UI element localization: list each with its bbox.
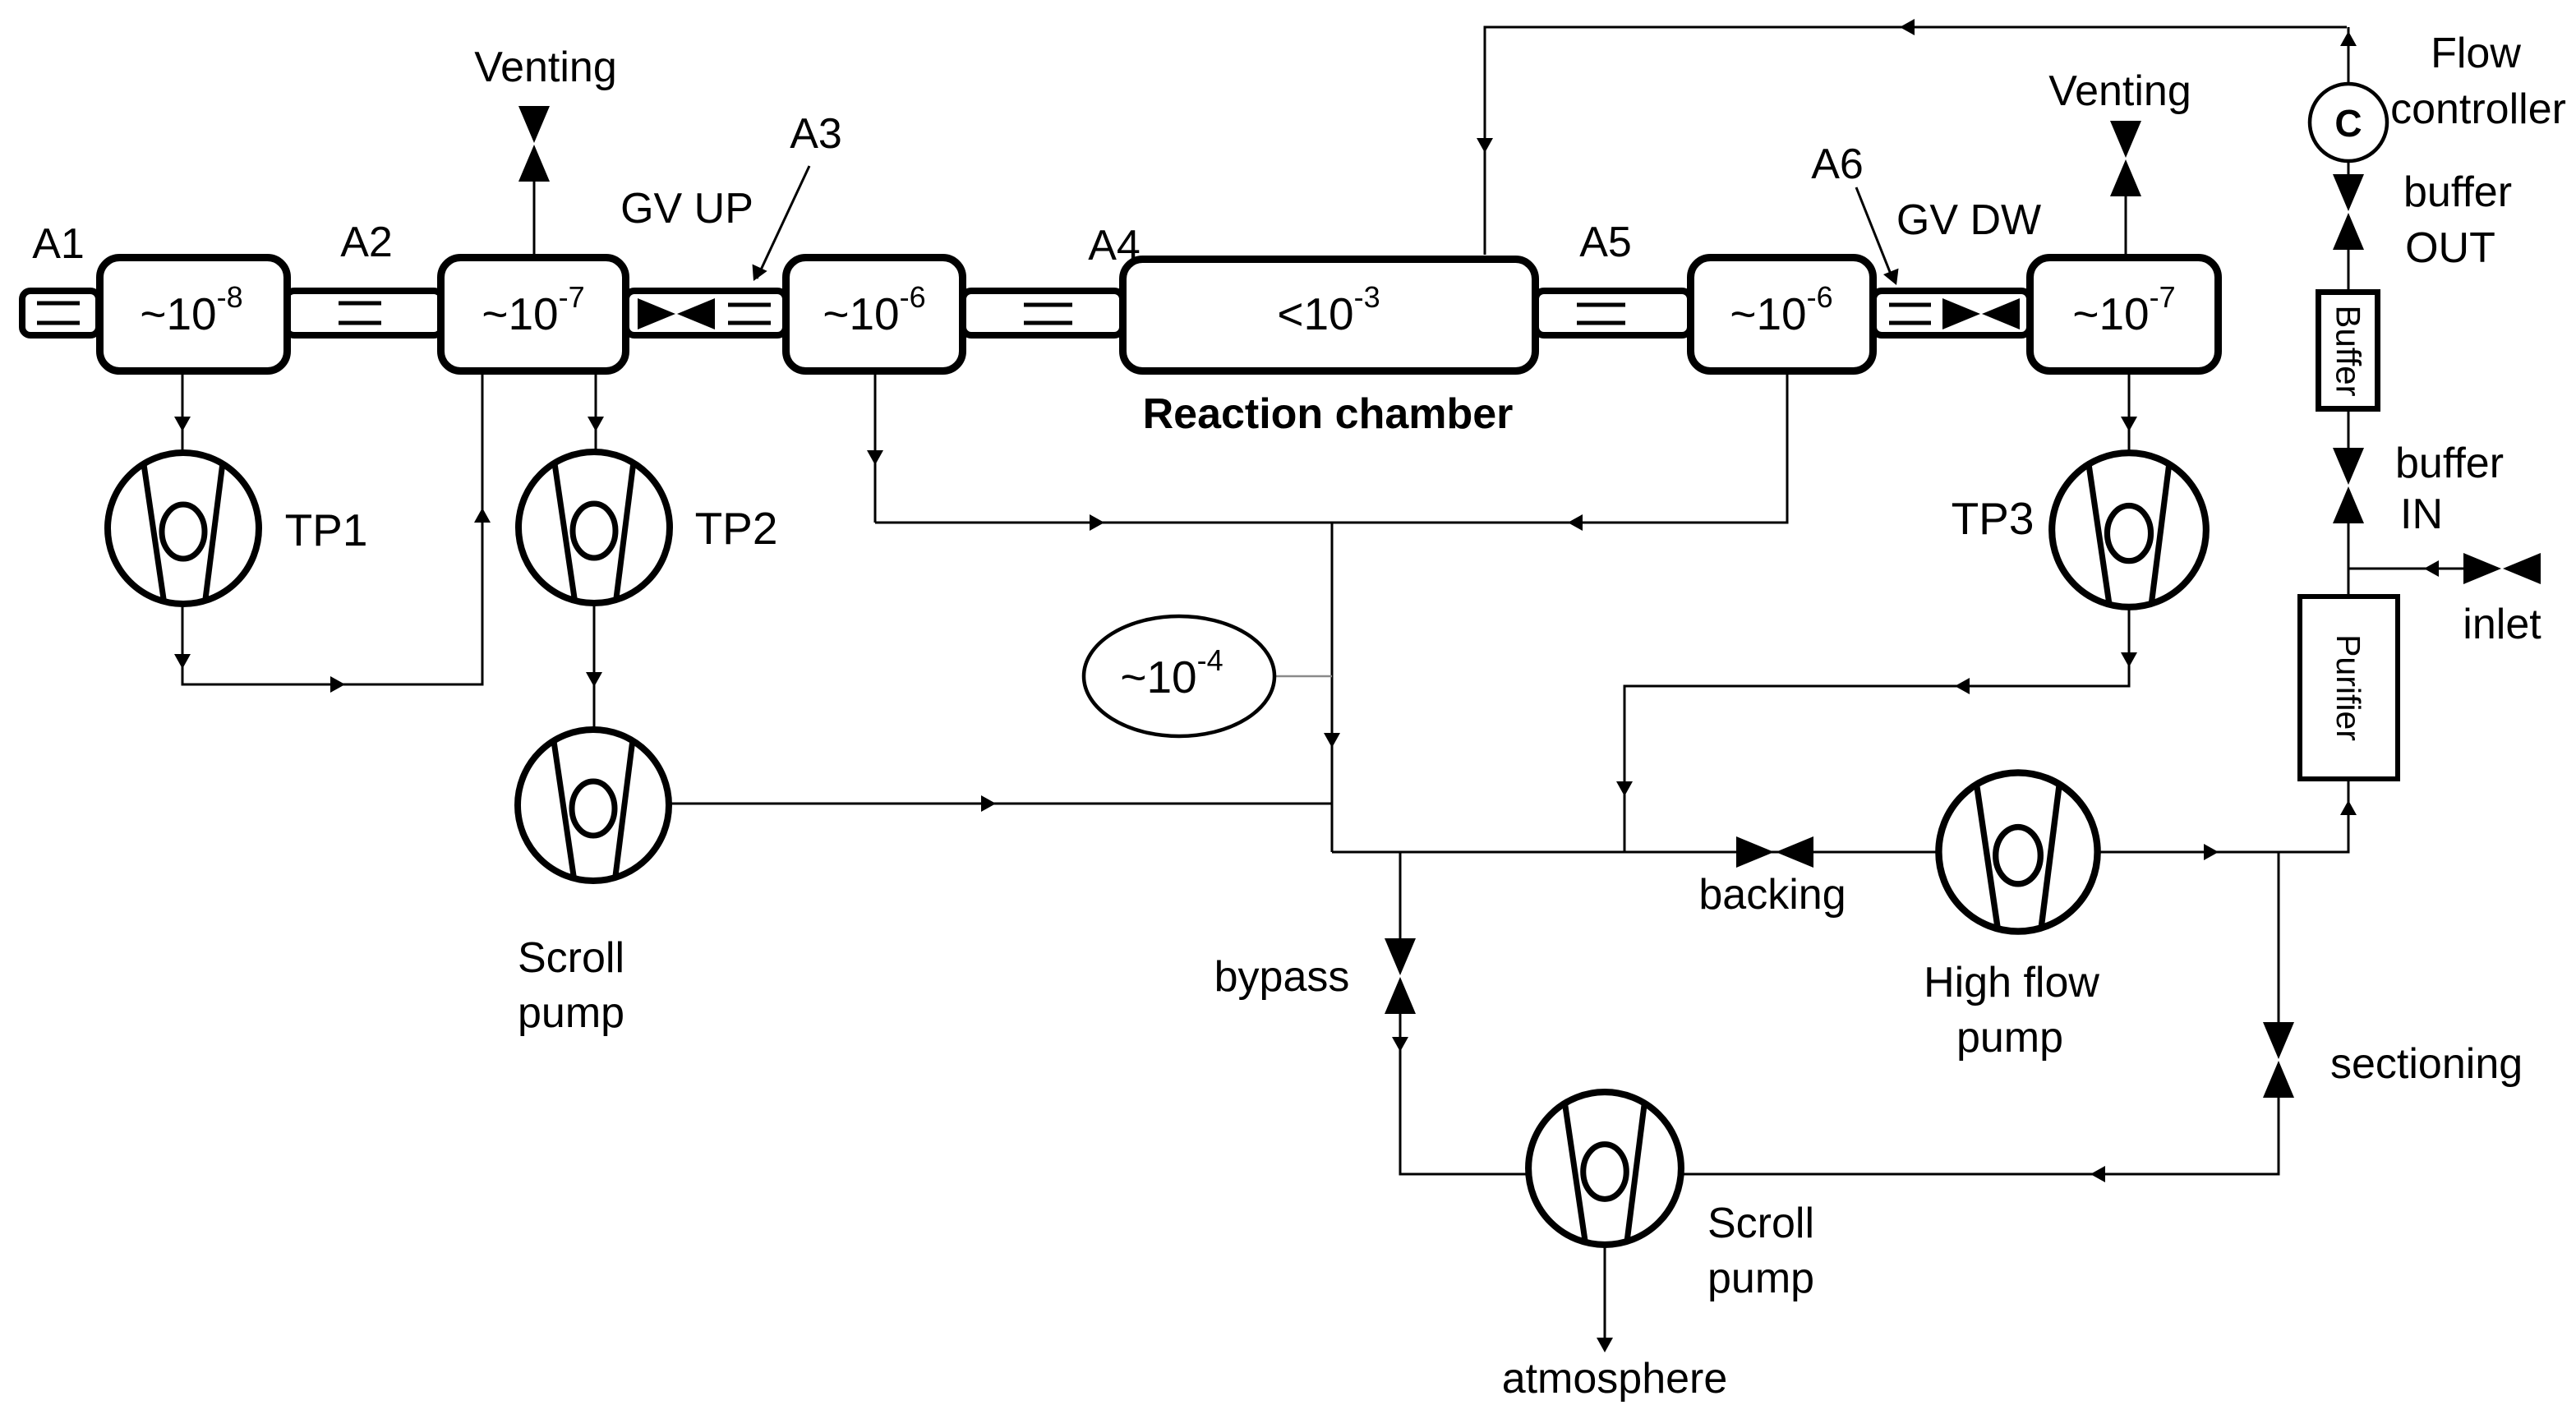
arrow up to feedback line: [2340, 31, 2357, 46]
chamber C 10-6 upstream: [786, 258, 963, 371]
arrow left on crossover: [1568, 514, 1583, 531]
svg-text:GV DW: GV DW: [1896, 196, 2041, 244]
scroll pump downstream: [1528, 1092, 1681, 1245]
svg-text:OUT: OUT: [2405, 224, 2495, 272]
turbo pump TP3: [2052, 453, 2206, 607]
svg-text:Flow: Flow: [2431, 30, 2521, 77]
arrow left into scroll pump: [2090, 1166, 2105, 1182]
arrow down into scroll pump: [586, 672, 602, 687]
svg-text:atmosphere: atmosphere: [1502, 1355, 1728, 1403]
svg-text:controller: controller: [2390, 85, 2566, 133]
feedback line from flow controller to reaction chamber: [1485, 27, 2347, 255]
arrow left on inlet line: [2424, 560, 2439, 577]
svg-text:Reaction chamber: Reaction chamber: [1143, 390, 1514, 438]
tube A5: [1536, 291, 1690, 335]
venting valve downstream stem: [2125, 196, 2127, 254]
svg-text:IN: IN: [2400, 491, 2443, 538]
svg-text:pump: pump: [1956, 1014, 2063, 1062]
tube A4: [963, 291, 1122, 335]
arrow right on crossover: [1090, 514, 1104, 531]
svg-text:buffer: buffer: [2395, 440, 2504, 487]
valve sectioning: [2263, 1022, 2294, 1098]
chamber B 10-7 upstream: [441, 258, 626, 371]
gauge 10-4 connector: [1274, 675, 1332, 678]
wire scroll pump to foreline junction: [669, 803, 1332, 805]
A6 pointer arrowhead: [1883, 269, 1904, 288]
wire TP1 outlet to chamber 10-7: [182, 371, 482, 684]
tube A2: [286, 291, 442, 335]
arrow right on pump outlet: [2204, 844, 2219, 860]
svg-text:Purifier: Purifier: [2329, 634, 2367, 741]
svg-text:buffer: buffer: [2403, 168, 2512, 216]
svg-text:TP1: TP1: [285, 504, 368, 555]
wire chamber 10-6 upstream down to crossover: [874, 373, 877, 523]
chamber A 10-8: [100, 258, 288, 371]
arrow down on TP1 outlet: [174, 654, 191, 669]
wire high flow pump to purifier: [2098, 781, 2348, 852]
arrow left on TP3 outlet run: [1955, 678, 1970, 694]
A3 pointer arrowhead: [746, 264, 767, 284]
reaction chamber: [1123, 260, 1536, 371]
high flow pump: [1938, 772, 2097, 931]
arrow up into chamber 10-7: [474, 508, 491, 523]
svg-text:A6: A6: [1811, 140, 1864, 188]
svg-text:A3: A3: [790, 110, 842, 158]
wire crossover down to backing manifold: [1331, 523, 1334, 852]
A6 pointer line: [1856, 187, 1893, 280]
svg-text:Buffer: Buffer: [2329, 305, 2368, 396]
venting valve upstream: [518, 106, 550, 182]
wire TP2 to scroll pump: [593, 604, 596, 729]
arrow down on TP3 outlet: [2121, 652, 2137, 667]
arrow down into TP2: [588, 417, 604, 431]
wire sectioning branch to scroll pump: [1682, 852, 2279, 1174]
svg-text:A5: A5: [1579, 219, 1632, 266]
svg-text:pump: pump: [518, 989, 624, 1037]
svg-text:Venting: Venting: [2048, 67, 2191, 115]
chamber E 10-7 downstream: [2030, 258, 2219, 371]
svg-text:bypass: bypass: [1214, 953, 1350, 1001]
venting valve upstream stem: [533, 182, 536, 256]
wire inlet to riser: [2348, 568, 2463, 570]
svg-text:High flow: High flow: [1924, 959, 2099, 1007]
venting valve downstream: [2110, 121, 2141, 196]
arrow down below bypass valve: [1392, 1037, 1408, 1052]
arrow left on feedback line: [1900, 19, 1915, 35]
svg-text:Scroll: Scroll: [1707, 1200, 1814, 1247]
svg-text:TP2: TP2: [695, 503, 778, 554]
tube GV DW: [1873, 291, 2030, 335]
svg-text:sectioning: sectioning: [2330, 1040, 2523, 1088]
wire chamber A10-8 to TP1: [182, 373, 184, 451]
svg-text:Scroll: Scroll: [518, 934, 624, 982]
svg-text:inlet: inlet: [2463, 601, 2541, 648]
chamber D 10-6 downstream: [1691, 258, 1873, 371]
valve bypass: [1385, 938, 1416, 1014]
svg-text:GV UP: GV UP: [620, 185, 753, 233]
buffer box: [2319, 293, 2378, 409]
valve buffer OUT: [2333, 174, 2364, 250]
svg-text:backing: backing: [1698, 871, 1846, 919]
arrow down into backing manifold: [1616, 781, 1633, 796]
arrow right on scroll pump line: [981, 795, 996, 812]
svg-text:pump: pump: [1707, 1255, 1814, 1302]
turbo pump TP1: [108, 453, 259, 604]
svg-text:TP3: TP3: [1952, 493, 2035, 544]
wire chamber 10-7 to TP2: [595, 373, 597, 451]
arrow down to atmosphere: [1597, 1338, 1613, 1352]
svg-text:C: C: [2334, 102, 2362, 145]
arrow right on TP1 outlet run: [330, 676, 345, 693]
valve backing: [1736, 836, 1813, 868]
arrow down on crossover drop: [1324, 733, 1340, 748]
svg-text:A2: A2: [340, 219, 393, 266]
gauge 10-4: [1084, 616, 1274, 736]
purifier box: [2300, 597, 2398, 779]
scroll pump upstream: [518, 730, 669, 881]
wire bypass branch: [1400, 852, 1528, 1174]
crossover line between gauge drops: [875, 373, 1787, 523]
valve GV UP: [638, 298, 715, 329]
turbo pump TP2: [518, 452, 670, 603]
wire chamber 10-7 downstream to TP3: [2128, 373, 2131, 451]
svg-text:Venting: Venting: [474, 44, 617, 91]
tube A1: [22, 291, 99, 335]
backing manifold line: [1332, 851, 1938, 854]
wire scroll pump exhaust to atmosphere: [1604, 1245, 1606, 1338]
flow controller C: [2310, 84, 2387, 161]
arrow down into reaction chamber: [1477, 138, 1493, 153]
right column riser wire: [2348, 27, 2350, 594]
A3 pointer line: [757, 166, 809, 279]
valve GV DW: [1942, 298, 2020, 329]
svg-text:A4: A4: [1088, 222, 1141, 269]
arrow down into TP1: [174, 417, 191, 431]
arrow up into purifier: [2340, 800, 2357, 815]
arrow down on upstream crossover drop: [867, 450, 883, 465]
arrow down into TP3: [2121, 417, 2137, 431]
tube GV UP: [626, 291, 786, 335]
svg-text:A1: A1: [32, 220, 85, 268]
wire TP3 to backing manifold: [1624, 607, 2129, 852]
valve buffer IN: [2333, 448, 2364, 523]
valve inlet: [2463, 553, 2541, 584]
